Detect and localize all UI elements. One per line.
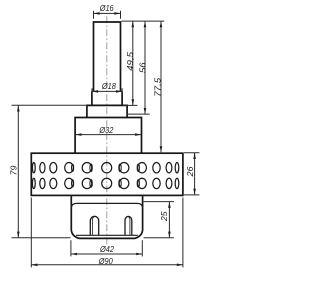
dimension 79 xyxy=(9,105,87,238)
collar xyxy=(87,105,127,117)
collet nut body xyxy=(71,196,142,238)
dimension 77,5 xyxy=(152,21,162,152)
svg-text:56: 56 xyxy=(138,62,148,73)
dimension 56 xyxy=(127,21,150,114)
flange holes row 2 xyxy=(32,178,178,188)
shaft Ø18 section xyxy=(92,91,122,105)
svg-text:25: 25 xyxy=(159,211,169,222)
svg-text:26: 26 xyxy=(185,166,195,177)
nut bottom chamfer line xyxy=(76,234,138,236)
dimension Ø16 xyxy=(94,3,121,19)
extension line from shaft top to right dims xyxy=(122,20,165,22)
dimension 25 xyxy=(144,202,174,238)
svg-text:79: 79 xyxy=(9,165,19,175)
dimension Ø42 xyxy=(71,240,142,256)
svg-text:Ø18: Ø18 xyxy=(101,81,116,91)
svg-text:Ø90: Ø90 xyxy=(98,256,113,266)
dimension Ø18 xyxy=(92,81,122,95)
svg-text:Ø16: Ø16 xyxy=(99,3,114,13)
nut top chamfer ring xyxy=(71,203,142,208)
dimension Ø32 xyxy=(75,125,141,136)
flange holes row 1 xyxy=(32,163,178,173)
nut slot right xyxy=(125,216,132,235)
svg-text:Ø32: Ø32 xyxy=(99,125,114,135)
block Ø32 xyxy=(75,118,141,154)
flange Ø90 body xyxy=(31,153,183,195)
svg-text:Ø42: Ø42 xyxy=(99,244,114,254)
centerline (vertical axis) xyxy=(106,16,108,245)
svg-text:49,5: 49,5 xyxy=(125,52,135,71)
dimension 49,5 xyxy=(123,21,138,105)
shaft Ø16 body xyxy=(94,22,121,91)
dimension 26 xyxy=(184,153,199,195)
dimension Ø90 xyxy=(31,198,183,268)
nut slot left xyxy=(90,216,98,235)
svg-text:77,5: 77,5 xyxy=(152,77,162,96)
